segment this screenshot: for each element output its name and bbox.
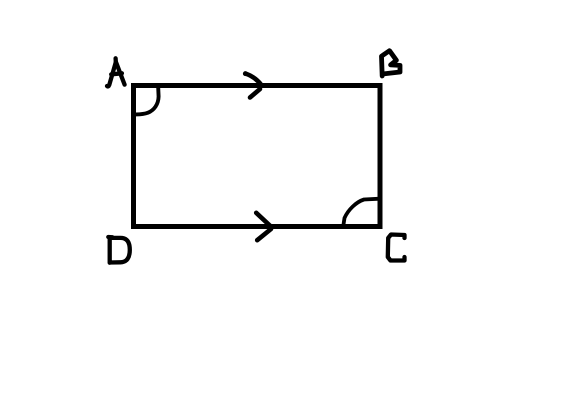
rectangle ABCD (sides AB, BC, CD, DA) [134,86,381,227]
parallel-mark chevron on AB [243,71,261,97]
side DC (bottom) [134,224,381,229]
side AB (top) [134,83,381,88]
angle arc at C [343,199,380,227]
side AD (left) [131,86,136,227]
vertex label B [382,51,401,76]
side BC (right) [378,86,383,227]
vertex label C [388,235,405,261]
vertex label A [107,58,125,86]
parallel-mark chevron on DC [256,213,271,240]
vertex label D [108,237,130,263]
angle arc at A [135,88,159,115]
